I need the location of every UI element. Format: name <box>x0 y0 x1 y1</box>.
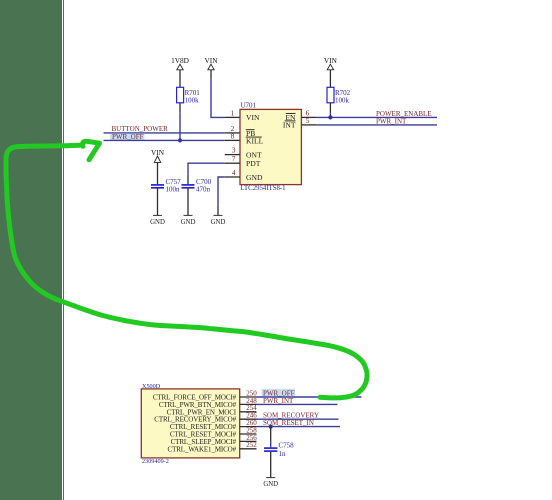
wire C757 to GND <box>157 188 159 216</box>
svg-text:252: 252 <box>246 441 257 449</box>
ground GND (C758) <box>263 478 278 489</box>
svg-text:7: 7 <box>232 154 236 163</box>
power port VIN (C757) <box>151 148 165 162</box>
svg-text:8: 8 <box>231 131 235 140</box>
ground GND (C700) <box>181 215 196 225</box>
svg-text:100k: 100k <box>335 97 350 105</box>
svg-text:INT: INT <box>283 120 296 129</box>
svg-text:GND: GND <box>263 481 278 488</box>
svg-text:KILL: KILL <box>246 136 264 145</box>
pin 252 stub (CTRL_WAKE1_MICO#) <box>240 448 257 450</box>
wire SOM_RESET_IN to C758 <box>270 427 272 441</box>
pin 256 stub (CTRL_SLEEP_MOCI#) <box>240 440 257 442</box>
svg-text:PWR_INT: PWR_INT <box>263 397 294 405</box>
svg-text:VIN: VIN <box>324 56 338 65</box>
IC U701 <box>240 102 301 193</box>
wire 1V8D to R701 <box>179 70 181 88</box>
wire pin 4 to GND <box>225 176 240 178</box>
svg-text:VIN: VIN <box>246 113 260 122</box>
wire C700 to pin 7 (PDT) <box>187 175 189 185</box>
wire C758 to GND <box>270 452 272 478</box>
resistor R702 <box>327 87 351 104</box>
capacitor C757 <box>151 178 181 194</box>
svg-text:1n: 1n <box>279 450 287 458</box>
wire PWR_OFF (pin 8) <box>104 139 225 141</box>
power port VIN (pin 1) <box>205 56 219 70</box>
net label PWR_OFF (highlighted) <box>110 133 145 141</box>
svg-text:U701: U701 <box>241 102 257 110</box>
svg-text:PDT: PDT <box>246 159 261 168</box>
pin 246 wire (CTRL_RECOVERY_MICO#) <box>240 418 257 420</box>
svg-text:PWR_INT: PWR_INT <box>376 118 407 126</box>
svg-text:GND: GND <box>211 219 226 226</box>
pin 250 wire (CTRL_FORCE_OFF_MOCI#) <box>240 396 257 398</box>
ground GND (C757) <box>150 215 165 225</box>
annotation arrow (green marker) <box>6 141 367 398</box>
capacitor C700 <box>182 178 212 194</box>
svg-text:VIN: VIN <box>205 56 219 65</box>
wire R701 to PWR_OFF junction <box>179 103 181 113</box>
wire EN pin 6 to POWER_ENABLE <box>301 116 316 118</box>
svg-text:1: 1 <box>231 108 235 117</box>
junction dot on POWER_ENABLE <box>328 115 332 119</box>
svg-text:4: 4 <box>232 168 236 177</box>
resistor R701 <box>177 87 201 104</box>
pin 248 wire (CTRL_PWR_BTN_MICO#) <box>240 403 257 405</box>
wire VIN to R702 <box>329 70 331 88</box>
svg-text:VIN: VIN <box>151 148 165 157</box>
wire BUTTON_POWER (pin 2) <box>104 132 225 134</box>
wire C700 to GND <box>187 188 189 216</box>
capacitor C758 <box>264 442 294 459</box>
power port VIN (R702) <box>324 56 338 70</box>
svg-text:BUTTON_POWER: BUTTON_POWER <box>112 125 169 133</box>
wire VIN to pin 1 <box>210 70 212 80</box>
pin 254 stub (CTRL_PWR_EN_MOCI) <box>240 411 257 413</box>
pin 3 stub (ONT) <box>225 154 240 156</box>
svg-text:100n: 100n <box>166 186 181 194</box>
svg-text:100k: 100k <box>185 97 200 105</box>
svg-text:GND: GND <box>246 173 263 182</box>
connector X500D <box>141 383 239 465</box>
ground GND (pin 4) <box>211 215 226 225</box>
svg-text:470n: 470n <box>196 186 211 194</box>
wire VIN to C757 <box>157 162 159 185</box>
svg-text:C758: C758 <box>279 442 295 450</box>
pin 258 stub (CTRL_RESET_MOCI#) <box>240 433 257 435</box>
svg-text:CTRL_WAKE1_MICO#: CTRL_WAKE1_MICO# <box>168 445 237 453</box>
wire INT pin 5 to PWR_INT <box>301 124 316 126</box>
svg-text:5: 5 <box>306 116 310 125</box>
power port 1V8D <box>171 56 189 70</box>
wire R702 to POWER_ENABLE <box>329 103 331 113</box>
junction dot on PWR_OFF <box>178 138 182 142</box>
svg-text:GND: GND <box>150 219 165 226</box>
svg-text:2309409-2: 2309409-2 <box>142 458 169 465</box>
net label PWR_OFF (bottom, highlighted) <box>262 389 296 398</box>
junction dot on SOM_RESET_IN <box>269 425 273 429</box>
pin 260 wire (CTRL_RESET_MICO#) <box>240 426 257 428</box>
svg-text:GND: GND <box>181 219 196 226</box>
svg-text:LTC2954ITS8-1: LTC2954ITS8-1 <box>241 185 286 192</box>
